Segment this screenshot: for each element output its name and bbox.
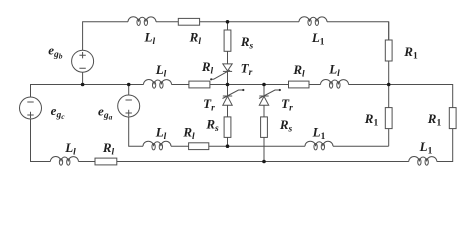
svg-text:Rl: Rl [292,62,305,80]
source egb [72,50,94,72]
svg-text:Rs: Rs [279,117,293,135]
node B middle rail [262,83,266,87]
wire top rail right segment with corner [327,22,389,40]
svg-text:Tr: Tr [281,96,293,114]
source ega [118,95,140,117]
wire thyristor to Rs lower-right [263,105,265,117]
svg-text:L1: L1 [311,30,325,48]
inductor Ll middle-right [321,80,349,85]
wire node B down [263,85,265,97]
resistor Rl top [178,18,199,25]
wire right vertical top [388,22,390,40]
node ega / middle rail [127,83,131,87]
wire row3 right segment [333,145,389,147]
svg-text:Ll: Ll [155,124,167,142]
svg-text:R1: R1 [427,111,442,129]
resistor Rs top [224,30,231,51]
resistor Rl middle-right [289,81,310,88]
svg-text:Ll: Ll [155,62,167,80]
resistor R1 upper [385,40,392,61]
inductor Ll bottom [50,157,78,162]
svg-text:Rl: Rl [189,30,202,48]
svg-text:Rs: Rs [240,34,254,52]
inductor L1 row3 [305,141,333,146]
wire thyristor to Rs lower-left [227,105,229,117]
wire ega top [128,85,130,96]
node egb / middle rail [81,83,85,87]
wire row3 rail left segment [142,145,144,147]
inductor L1 bottom [409,157,437,162]
wire node A down [227,85,229,97]
svg-text:L1: L1 [419,139,433,157]
wire node down to R1 lower-left [388,85,390,108]
svg-text:egb: egb [48,42,63,60]
wire R1 to row3 corner [388,129,390,147]
resistor R1 lower-right [449,108,456,129]
wire row3 between Ll and Rl [171,145,189,147]
wire row3 node to L1 [228,145,306,147]
resistor Rl row3 [189,143,209,150]
svg-text:Rl: Rl [102,140,115,158]
svg-text:Ll: Ll [328,61,340,79]
svg-text:R1: R1 [364,111,379,129]
svg-text:egc: egc [51,103,66,121]
node A middle rail [226,83,230,87]
inductor Ll row3 [143,141,171,146]
thyristor Tr lower-right (pointing up) [259,95,268,97]
wire top rail between Ll and Rl [156,21,178,23]
wire Rs crossing to bottom rail [263,137,265,161]
resistor Rl middle-left [189,81,210,88]
wire middle rail node A to node B [228,84,265,86]
thyristor Tr lower-left (pointing up) [223,95,232,97]
wire egb bottom [82,72,84,84]
svg-text:Tr: Tr [203,96,215,114]
wire egc bottom to corner [31,119,51,162]
wire middle rail between Ll and Rl [172,84,189,86]
thyristor Tr top (pointing down) [223,64,232,71]
wire middle rail Rl to node A [210,84,228,86]
wire middle rail right segment to corner [349,85,453,108]
wire bottom rail between Ll and Rl [78,161,95,163]
resistor Rs lower-left [224,117,231,137]
wire R1 to middle rail node [388,61,390,85]
wire ega bottom to corner [129,117,143,146]
svg-text:Rl: Rl [201,59,214,77]
node row3 rail / Rs [226,144,230,148]
wire Rs to thyristor [227,51,229,64]
wire row3 Rl to node [209,145,228,147]
wire middle rail node B to Rl right [264,84,289,86]
node middle rail / R1 [387,83,391,87]
inductor Ll top [128,17,156,22]
resistor Rl bottom [95,158,117,165]
wire R1 right to bottom corner [437,129,453,162]
node top rail / Rs branch [226,20,230,24]
svg-text:Rs: Rs [205,116,219,134]
wire top rail left segment [83,22,128,50]
resistor R1 lower-left [385,108,392,129]
svg-text:Ll: Ll [144,30,156,48]
svg-text:Ll: Ll [64,140,76,158]
wire middle rail left segment with corner [31,85,144,98]
source egc [20,97,42,119]
inductor L1 top [299,17,327,22]
wire thyristor to middle rail [227,71,229,84]
wire branch A from top node [227,22,229,30]
node bottom rail / Rs [262,160,266,164]
svg-text:R1: R1 [403,44,418,62]
resistor Rs lower-right [261,117,268,137]
svg-text:L1: L1 [312,124,326,142]
inductor Ll middle-left [144,80,172,85]
wire middle rail to Ll right [309,84,321,86]
wire Rs to row3 rail [227,137,229,146]
svg-text:Rl: Rl [182,124,195,142]
svg-text:Tr: Tr [241,60,253,78]
svg-text:ega: ega [98,103,113,121]
wire bottom rail long segment [117,161,409,163]
wire top rail between Rl and node [200,21,299,23]
